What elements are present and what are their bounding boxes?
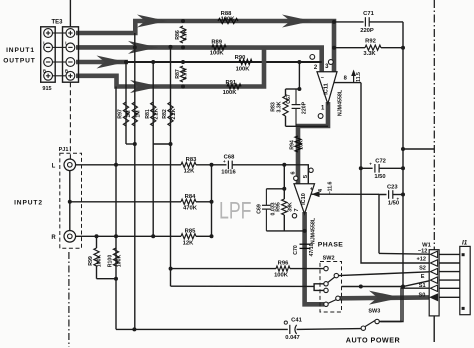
wire +B supply from pin8 down to +12 [361, 83, 429, 263]
wire between jacks with center tap [69, 171, 71, 231]
wire thick from SW2 to W1 pin S0 [340, 295, 429, 300]
svg-text:3: 3 [325, 64, 329, 70]
resistor R85 12K [181, 234, 196, 239]
I1 key dot top [462, 253, 465, 256]
wire join R97 R98 bottoms [126, 143, 135, 145]
resistor R92 3.3K [365, 45, 381, 50]
wire R row to tie column [196, 235, 212, 237]
wire vertical long R82 column down to node [170, 47, 172, 286]
svg-text:R89: R89 [211, 40, 222, 46]
SW2 contact C [324, 282, 328, 286]
arrow on row3 [97, 56, 127, 69]
resistor R88 100K [218, 18, 238, 23]
svg-text:0.047: 0.047 [285, 335, 300, 341]
svg-text:915: 915 [42, 86, 51, 92]
svg-text:11.5: 11.5 [356, 72, 362, 82]
svg-text:R94: R94 [289, 140, 295, 150]
capacitor C72 1/50 [361, 167, 373, 169]
svg-text:R90: R90 [235, 55, 246, 61]
svg-text:1: 1 [321, 106, 325, 112]
TE3 terminal circle pair row 3 [53, 61, 67, 63]
svg-text:B: B [43, 69, 46, 74]
resistor R98 1M vertical [132, 102, 137, 126]
svg-text:100K: 100K [236, 67, 251, 73]
resistor R87 4.7K vertical [180, 66, 185, 82]
svg-text:2.2K: 2.2K [153, 108, 159, 119]
terminal block TE3 right column [63, 27, 79, 82]
svg-text:B: B [65, 69, 68, 74]
wire ground rail right of C41 to SW3 [297, 328, 361, 331]
svg-text:10K: 10K [298, 140, 304, 150]
svg-text:3.3K: 3.3K [276, 101, 282, 112]
W1 pin -12 [430, 251, 437, 258]
resistor R100 100K vertical [113, 248, 118, 266]
connector I1 body [460, 246, 470, 314]
svg-text:S2: S2 [419, 265, 426, 271]
terminal block TE3 left column [41, 27, 56, 82]
wire R95 top from L row node [283, 165, 285, 199]
svg-text:12K: 12K [184, 169, 195, 175]
svg-text:C70: C70 [293, 245, 299, 255]
node ground rail junction [132, 327, 136, 331]
shield dash-dot line below PJ1 [68, 252, 70, 347]
wire join R99 to column [97, 278, 117, 280]
svg-text:7: 7 [294, 208, 300, 211]
svg-text:−12: −12 [418, 249, 428, 255]
svg-text:INPUT2: INPUT2 [14, 199, 43, 206]
svg-text:R99: R99 [88, 256, 94, 266]
supply arrow pin 8 [353, 74, 355, 83]
wire R92 to right column [381, 47, 403, 49]
svg-text:100K: 100K [97, 255, 103, 268]
wire mid row to tie column [196, 201, 212, 203]
svg-text:47/10: 47/10 [309, 243, 315, 256]
svg-text:+12: +12 [416, 257, 426, 263]
wire L row C68 to IC10 pin5 [232, 165, 308, 184]
svg-text:100K: 100K [221, 16, 236, 22]
arrow on row4 [130, 80, 160, 93]
capacitor C73 1/50 [379, 195, 387, 254]
SW2 lower contact F [324, 302, 328, 306]
wire R92 line [334, 47, 365, 49]
capacitor C68 10/16 [227, 161, 229, 169]
svg-text:R100: R100 [108, 255, 114, 268]
svg-text:R97: R97 [118, 109, 124, 119]
svg-text:R: R [51, 235, 56, 241]
svg-text:100K: 100K [223, 90, 238, 96]
wire C71 to right column [369, 21, 403, 23]
svg-text:R92: R92 [365, 38, 376, 44]
wire SW3 to W1 S1 [379, 288, 429, 321]
svg-text:220P: 220P [301, 101, 307, 114]
jack L [64, 159, 76, 171]
resistor R95 39K vertical [282, 199, 287, 215]
svg-text:OUTPUT: OUTPUT [3, 58, 36, 65]
svg-text:PJ1: PJ1 [59, 147, 69, 153]
board boundary dash-dot line [433, 0, 435, 250]
svg-text:3.3K: 3.3K [363, 51, 376, 57]
wire -12 feed to W1 [379, 252, 429, 255]
wire E line left segment [171, 285, 315, 287]
svg-text:+: + [310, 187, 313, 193]
wire stub above TE3 [69, 0, 71, 27]
svg-text:100K: 100K [117, 255, 123, 268]
wire thick row3 from TE3 pin3 [76, 60, 128, 65]
svg-text:S0: S0 [418, 292, 425, 298]
wire thick row4 from TE3 pin4 via R91 up to row2 [76, 48, 264, 87]
arrow on row2 [128, 41, 158, 54]
capacitor C41 0.047 on ground rail [289, 325, 291, 334]
resistor R91 100K [227, 84, 241, 89]
arrow on output path to W1 [369, 291, 402, 305]
TE3 terminal circle pair row 2 [53, 46, 67, 48]
pin 8 supply stub of IC11 [334, 82, 362, 84]
pin 2 callout of IC11 [310, 55, 315, 60]
wire right supply column down [381, 22, 403, 322]
svg-text:R84: R84 [185, 194, 196, 200]
wire vertical long R98 column down to ground rail [134, 33, 136, 329]
capacitor C70 47/10 on output path [300, 243, 311, 245]
svg-text:PHASE: PHASE [318, 242, 343, 249]
op-amp IC11 NJM4558L [317, 72, 337, 104]
svg-text:L: L [52, 163, 56, 169]
svg-text:R96: R96 [278, 260, 289, 266]
resistor R83f 3.3K vertical [285, 89, 287, 96]
svg-text:−11.6: −11.6 [327, 181, 333, 194]
resistor R97 1M vertical [123, 102, 128, 126]
svg-text:R81: R81 [145, 109, 151, 119]
wire E line right segment [342, 281, 430, 287]
SW2 contact B with lever [334, 273, 338, 277]
svg-text:100K: 100K [274, 272, 289, 278]
svg-text:4.7K: 4.7K [183, 68, 189, 79]
TE3 terminal circle pair row 4 [53, 75, 67, 77]
svg-text:10/16: 10/16 [221, 170, 236, 176]
wire tie column [211, 165, 213, 237]
wire R96 line [171, 268, 276, 270]
svg-text:+: + [369, 162, 372, 167]
svg-text:C69: C69 [256, 204, 262, 214]
resistor R81 2.2K vertical [151, 102, 156, 126]
wire thick row1 from TE3 pin1 to IC11 pin3 [76, 21, 334, 72]
svg-text:8: 8 [344, 75, 348, 81]
svg-text:R82: R82 [162, 109, 168, 119]
arrow on row1 left [137, 15, 167, 28]
svg-text:I1: I1 [462, 239, 468, 246]
I1 key dot bottom [462, 307, 465, 310]
wire feedback network top [286, 88, 300, 90]
wire R96 to SW2 contact [290, 268, 324, 270]
arrow on row1 right [282, 15, 312, 28]
svg-text:IC11: IC11 [324, 83, 330, 95]
svg-text:C72: C72 [375, 159, 386, 165]
svg-text:C71: C71 [363, 11, 374, 17]
wire vertical R81 column [152, 62, 154, 236]
svg-text:C23: C23 [387, 185, 398, 191]
connector PJ1 dashed outline [60, 153, 82, 248]
SW2 lower lever contact E [336, 296, 340, 300]
svg-text:−: − [321, 76, 324, 82]
jack R [64, 231, 76, 243]
svg-text:R85: R85 [185, 228, 196, 234]
svg-text:NJM4558L: NJM4558L [338, 89, 344, 116]
wire network bottom to IC10 output [266, 230, 304, 232]
svg-text:1/50: 1/50 [374, 174, 385, 180]
svg-text:R87: R87 [175, 69, 181, 79]
connector W1 body [429, 250, 439, 316]
node E line taps [359, 285, 363, 289]
resistor R90 100K [239, 59, 252, 64]
wire mid row from PJ1 tap [70, 201, 181, 203]
wire vertical R97 column [125, 62, 127, 144]
wire feedback from row3 node down [298, 62, 300, 89]
capacitor C69 0.033 [265, 189, 267, 206]
switch SW2 dashed outline [320, 262, 342, 313]
svg-text:R91: R91 [225, 80, 236, 86]
pin 4 supply line of IC10 to C73 [312, 193, 380, 195]
wire row3 continuation to IC11 pin2 [128, 61, 322, 63]
svg-text:1M: 1M [126, 110, 132, 117]
resistor R86 4.7K vertical [180, 26, 185, 43]
svg-text:1M: 1M [135, 110, 141, 117]
wire thick IC11 output down-left to R94 [298, 102, 328, 184]
svg-text:R95: R95 [275, 202, 281, 212]
shield dash line TE3 to PJ1 [69, 82, 71, 158]
wire column from row4 jog down to ground rail [115, 87, 117, 330]
resistor R89 100K [212, 45, 226, 50]
SW2 contact A [324, 266, 328, 270]
TE3 terminal circle pair row 1 [53, 32, 67, 34]
svg-text:E: E [421, 274, 425, 280]
node feedback top [297, 87, 301, 91]
op-amp IC10 NJM4558L [294, 184, 315, 214]
wire R row from jack R [76, 235, 181, 237]
svg-text:R86: R86 [175, 30, 181, 40]
node R96 line tap [169, 267, 173, 271]
W1 pin S0 [430, 294, 437, 301]
svg-text:100K: 100K [210, 50, 225, 56]
svg-text:SW2: SW2 [323, 255, 335, 261]
wire S2 from SW2 to W1 [339, 272, 430, 276]
wire L row from jack L [76, 164, 181, 166]
node R95 C69 top line [282, 187, 286, 191]
SW2 common bracket [314, 284, 326, 291]
svg-text:INPUT1: INPUT1 [6, 47, 35, 54]
wire top feedback line [334, 21, 364, 23]
svg-text:220P: 220P [360, 28, 374, 34]
resistor R82 2.2K vertical [168, 102, 173, 126]
resistor R83 12K [181, 162, 196, 167]
wire join R81 R82 bottoms [153, 143, 170, 145]
svg-text:12K: 12K [183, 240, 194, 246]
wire below W1 [433, 316, 435, 342]
svg-text:TE3: TE3 [51, 20, 63, 26]
svg-text:4.7K: 4.7K [183, 29, 189, 40]
wire stub to board edge [403, 148, 434, 150]
svg-text:+: + [396, 197, 399, 202]
svg-text:2: 2 [314, 65, 318, 71]
svg-text:4: 4 [318, 188, 324, 192]
svg-text:LPF: LPF [219, 198, 252, 225]
capacitor C71 220P [364, 17, 366, 26]
W1 pin E [430, 277, 437, 284]
wire thick IC10 output down to phase switch [305, 212, 324, 304]
SW2 contact D [324, 288, 328, 292]
svg-text:IC10: IC10 [301, 193, 307, 205]
node L row tie [210, 163, 214, 167]
svg-text:+: + [223, 159, 226, 164]
svg-text:S1: S1 [419, 283, 426, 289]
switch SW3 [361, 326, 365, 330]
wire feedback network bottom to IC11 output [286, 125, 329, 127]
svg-text:NJM4558L: NJM4558L [310, 217, 316, 244]
svg-text:C67: C67 [286, 94, 292, 104]
resistor R84 470K [181, 199, 196, 204]
svg-text:AUTO POWER: AUTO POWER [346, 336, 401, 345]
W1 pin S2 [430, 268, 437, 275]
wire thick row2 from TE3 pin2 to IC11 pin2 [76, 47, 322, 71]
svg-text:SW3: SW3 [368, 309, 380, 315]
resistor R94 10K on thick line [295, 136, 301, 152]
svg-text:L: L [43, 41, 46, 46]
svg-text:C41: C41 [291, 318, 302, 324]
resistor R96 100K [276, 266, 290, 271]
W1 pin +12 [430, 260, 437, 267]
node center tap of PJ1 [68, 200, 72, 204]
resistor R99 100K vertical [96, 236, 98, 248]
svg-text:R83: R83 [186, 157, 197, 163]
wire ground rail [116, 328, 288, 330]
svg-text:470K: 470K [183, 206, 198, 212]
capacitor C67 220P [295, 89, 297, 105]
svg-text:39K: 39K [287, 202, 293, 212]
svg-text:L: L [65, 41, 68, 46]
wire L row R83 to C68 [196, 164, 227, 166]
svg-text:2.2K: 2.2K [171, 108, 177, 119]
W1 pin S1 [430, 285, 437, 292]
